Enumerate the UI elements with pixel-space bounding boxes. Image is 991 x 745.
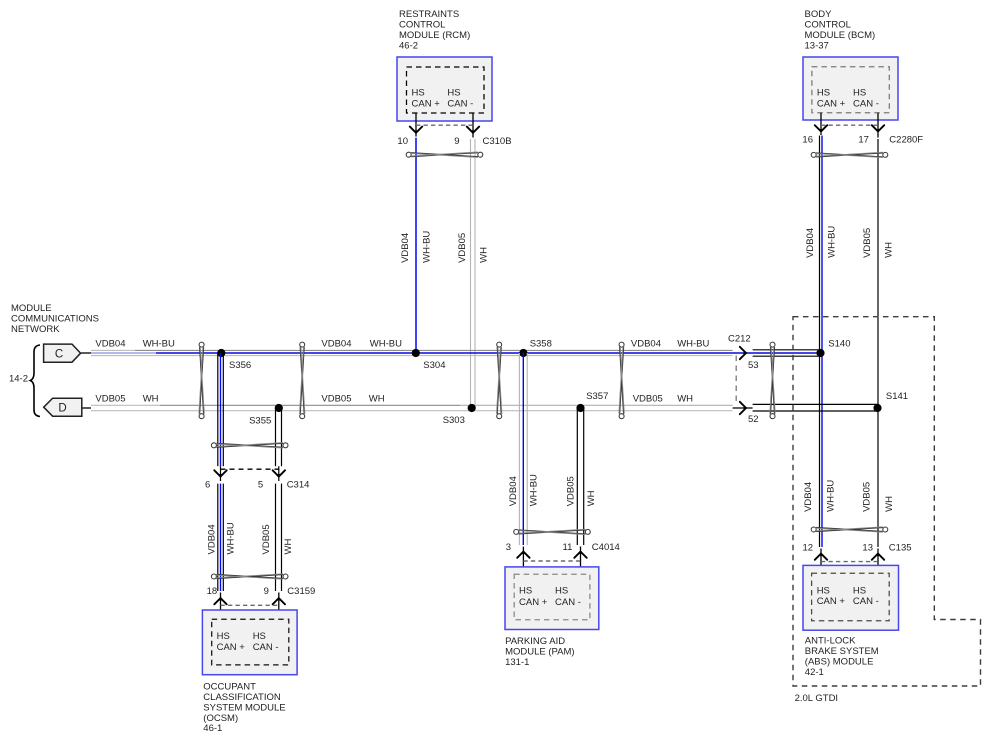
svg-text:VDB05: VDB05 (261, 524, 272, 554)
svg-text:52: 52 (748, 414, 759, 425)
connector C2280F arrow pin 17 (872, 125, 884, 133)
svg-text:SYSTEM MODULE: SYSTEM MODULE (203, 702, 285, 713)
svg-text:WH-BU: WH-BU (826, 226, 837, 258)
connector C310B pin stubs (416, 113, 473, 138)
svg-text:11: 11 (563, 542, 573, 553)
svg-text:WH: WH (883, 242, 894, 258)
svg-text:13: 13 (862, 543, 873, 554)
svg-text:CAN +: CAN + (817, 596, 846, 607)
connector C212 dashed line (735, 356, 737, 406)
wire PAM VDB05 vertical black pair (577, 408, 583, 545)
svg-text:C212: C212 (728, 334, 751, 345)
svg-text:CAN -: CAN - (447, 99, 473, 110)
label ABS title (805, 636, 879, 678)
connector C310B arrow pin 9 (467, 127, 479, 135)
svg-text:HS: HS (853, 585, 866, 596)
brace (30, 345, 40, 417)
svg-text:WH: WH (586, 490, 597, 506)
connector C314 labels (205, 480, 309, 491)
wire PAM VDB04 vertical gray pair with blue (519, 353, 527, 545)
twisted pair symbol bus T2 (300, 342, 305, 419)
label OCSM title (203, 682, 285, 735)
svg-text:10: 10 (397, 136, 408, 147)
svg-text:WH-BU: WH-BU (825, 480, 836, 512)
svg-text:VDB04: VDB04 (508, 476, 519, 506)
svg-text:VDB05: VDB05 (862, 482, 873, 512)
module OCSM box (202, 610, 297, 675)
splice S355 (249, 404, 283, 427)
svg-text:BODY: BODY (805, 9, 833, 20)
wire VDB04 bus black outline right (753, 350, 821, 356)
svg-text:ANTI-LOCK: ANTI-LOCK (805, 636, 856, 647)
svg-text:2.0L GTDI: 2.0L GTDI (795, 693, 838, 704)
svg-text:46-2: 46-2 (399, 40, 418, 51)
svg-text:46-1: 46-1 (203, 723, 222, 734)
svg-text:VDB04: VDB04 (803, 482, 814, 512)
svg-text:5: 5 (258, 480, 263, 491)
svg-text:CAN -: CAN - (853, 596, 879, 607)
svg-text:CAN +: CAN + (519, 597, 548, 608)
svg-text:HS: HS (412, 87, 425, 98)
wire VDB04 bus gray outline (91, 350, 733, 355)
label RCM title (399, 9, 470, 51)
svg-text:14-2: 14-2 (9, 373, 28, 384)
svg-text:C4014: C4014 (592, 542, 620, 553)
svg-text:HS: HS (217, 631, 230, 642)
svg-text:CAN -: CAN - (555, 597, 581, 608)
module PAM box (505, 567, 599, 630)
connector C310B dashed line (416, 124, 473, 126)
svg-text:VDB04: VDB04 (206, 524, 217, 554)
svg-text:HS: HS (519, 585, 532, 596)
svg-text:MODULE (RCM): MODULE (RCM) (399, 30, 470, 41)
twisted pair symbol above C3159 (211, 574, 288, 579)
twisted pair symbol bus T5 (770, 342, 775, 419)
svg-text:CAN -: CAN - (853, 99, 879, 110)
wire BCM pin17 vertical black single (877, 139, 879, 547)
svg-text:VDB05: VDB05 (95, 393, 125, 404)
splice S140 (816, 338, 850, 357)
connector C2280F arrow pin 16 (815, 125, 827, 133)
connector C3159 labels (207, 586, 316, 597)
svg-text:WH-BU: WH-BU (370, 338, 402, 349)
wire VDB05 bus black outline right (753, 404, 878, 411)
connector C4014 stems into PAM (523, 547, 580, 575)
svg-text:HS: HS (853, 87, 866, 98)
twisted pair symbol below C2280F (811, 152, 888, 157)
svg-text:HS: HS (447, 87, 460, 98)
svg-text:53: 53 (748, 360, 759, 371)
svg-text:CONTROL: CONTROL (399, 20, 445, 31)
wire OCSM VDB04 vertical pair lower (218, 484, 224, 591)
svg-text:CAN +: CAN + (217, 642, 246, 653)
svg-text:VDB05: VDB05 (633, 393, 663, 404)
wire OCSM VDB05 vertical pair upper (276, 408, 282, 466)
wire OCSM VDB04 vertical pair upper (218, 353, 224, 466)
svg-text:CONTROL: CONTROL (805, 20, 851, 31)
connector C135 labels (803, 543, 912, 554)
svg-text:6: 6 (205, 480, 210, 491)
svg-text:VDB04: VDB04 (400, 233, 411, 263)
svg-text:BRAKE SYSTEM: BRAKE SYSTEM (805, 646, 879, 657)
svg-text:WH-BU: WH-BU (529, 474, 540, 506)
svg-text:S303: S303 (443, 415, 465, 426)
connector C4014 dashed line (523, 560, 580, 562)
svg-text:VDB04: VDB04 (321, 338, 351, 349)
svg-text:RESTRAINTS: RESTRAINTS (399, 9, 459, 20)
svg-text:WH: WH (479, 247, 490, 263)
label BCM title (805, 9, 876, 51)
connector C212 arrow pin 53 (740, 347, 748, 359)
twisted pair symbol above C314 (211, 443, 288, 448)
wire VDB05 stem through C212 (733, 407, 753, 409)
svg-text:S357: S357 (586, 391, 608, 402)
wire VDB04 bus blue center (91, 352, 156, 354)
svg-text:WH-BU: WH-BU (677, 338, 709, 349)
connector C3159 stems into OCSM (221, 593, 279, 620)
splice S304 (412, 349, 446, 371)
wire VDB05 bus gray outline (91, 405, 733, 410)
connector C4014 arrow pin 3 (517, 550, 529, 558)
wire RCM pin10 VDB04 vertical blue (415, 138, 417, 353)
svg-text:OCCUPANT: OCCUPANT (203, 682, 256, 693)
twisted pair symbol above C135 (811, 527, 888, 532)
svg-text:17: 17 (858, 134, 869, 145)
splice S141 (873, 391, 908, 412)
svg-text:131-1: 131-1 (505, 657, 529, 668)
twisted pair symbol above C4014 (514, 529, 591, 534)
svg-text:18: 18 (207, 586, 218, 597)
connector C310B arrow pin 10 (410, 127, 422, 135)
connector C314 arrow pin 6 (214, 470, 226, 478)
connector C4014 arrow pin 11 (574, 550, 586, 558)
svg-text:13-37: 13-37 (805, 40, 829, 51)
wire OCSM VDB05 vertical pair lower (276, 484, 282, 591)
svg-text:C310B: C310B (483, 136, 512, 147)
dashed box 2.0L GTDI (793, 317, 981, 686)
svg-text:C135: C135 (889, 543, 912, 554)
connector C4014 labels (506, 542, 620, 553)
svg-text:VDB05: VDB05 (457, 233, 468, 263)
svg-text:C3159: C3159 (287, 586, 315, 597)
svg-text:C314: C314 (287, 480, 310, 491)
connector C3159 arrow pin 9 (273, 597, 285, 605)
svg-text:(ABS) MODULE: (ABS) MODULE (805, 657, 874, 668)
svg-text:S355: S355 (249, 416, 271, 427)
connector C314 stem pin6 (220, 466, 222, 481)
connector C314 dashed line (221, 468, 279, 470)
svg-text:MODULE (BCM): MODULE (BCM) (805, 30, 876, 41)
svg-text:HS: HS (555, 585, 568, 596)
svg-text:WH: WH (283, 539, 294, 555)
connector C2280F dashed line (821, 124, 878, 126)
svg-text:MODULE (PAM): MODULE (PAM) (505, 646, 574, 657)
svg-text:S356: S356 (229, 360, 251, 371)
svg-text:C2280F: C2280F (889, 134, 923, 145)
svg-text:42-1: 42-1 (805, 667, 824, 678)
svg-text:9: 9 (264, 586, 269, 597)
connector C135 dashed line (821, 561, 878, 563)
svg-text:WH: WH (677, 393, 693, 404)
svg-text:WH-BU: WH-BU (421, 231, 432, 263)
connector C314 stem pin5 (278, 466, 280, 481)
svg-text:16: 16 (802, 134, 813, 145)
label PAM title (505, 636, 574, 668)
connector D pentagon (44, 398, 91, 416)
module RCM box (397, 57, 492, 121)
svg-text:S141: S141 (886, 391, 908, 402)
svg-text:PARKING AID: PARKING AID (505, 636, 565, 647)
svg-text:VDB04: VDB04 (631, 338, 661, 349)
svg-text:C: C (55, 348, 63, 360)
svg-text:S140: S140 (828, 338, 850, 349)
connector C135 arrow pin 13 (872, 552, 884, 560)
wire RCM pin9 VDB05 vertical white pair (471, 139, 476, 408)
wire BCM pin16 vertical black+blue pair (820, 136, 823, 548)
svg-text:S304: S304 (423, 360, 445, 371)
connector C314 arrow pin 5 (273, 470, 285, 478)
connector C135 stems into ABS (821, 549, 878, 574)
svg-text:MODULE: MODULE (11, 303, 52, 314)
module BCM box (803, 57, 898, 120)
svg-text:NETWORK: NETWORK (11, 324, 60, 335)
svg-text:VDB04: VDB04 (805, 228, 816, 258)
connector C3159 dashed line (221, 604, 279, 606)
connector C3159 arrow pin 18 (214, 597, 226, 605)
twisted pair symbol below C310B (406, 152, 483, 157)
connector C135 arrow pin 12 (815, 552, 827, 560)
twisted pair symbol bus T4 (619, 342, 624, 419)
svg-text:CAN +: CAN + (412, 99, 441, 110)
svg-text:CAN +: CAN + (817, 99, 846, 110)
twisted pair symbol bus T1 (199, 342, 204, 419)
splice S356 (217, 349, 251, 371)
module ABS box (803, 565, 899, 630)
splice S357 (576, 391, 608, 412)
svg-text:WH: WH (884, 496, 895, 512)
svg-text:WH-BU: WH-BU (226, 522, 237, 554)
svg-text:S358: S358 (530, 339, 552, 350)
svg-text:9: 9 (454, 136, 459, 147)
connector C310B labels (397, 136, 511, 147)
connector C212 pin labels (748, 360, 759, 425)
svg-text:VDB05: VDB05 (862, 228, 873, 258)
twisted pair symbol bus T3 (497, 342, 502, 419)
connector C212 arrow pin 52 (740, 402, 748, 414)
connector C2280F pin stubs (821, 113, 878, 138)
svg-text:(OCSM): (OCSM) (203, 713, 238, 724)
svg-text:WH: WH (143, 393, 159, 404)
svg-text:VDB05: VDB05 (566, 476, 577, 506)
connector C2280F labels (802, 134, 923, 145)
splice S303 (443, 404, 476, 426)
svg-text:12: 12 (803, 543, 814, 554)
svg-text:VDB04: VDB04 (95, 338, 125, 349)
svg-text:COMMUNICATIONS: COMMUNICATIONS (11, 314, 99, 325)
svg-text:HS: HS (817, 87, 830, 98)
svg-text:HS: HS (817, 585, 830, 596)
svg-text:VDB05: VDB05 (321, 393, 351, 404)
label module communications network (11, 303, 99, 335)
connector C pentagon (44, 344, 91, 362)
svg-text:CAN -: CAN - (253, 642, 279, 653)
svg-text:WH-BU: WH-BU (143, 338, 175, 349)
svg-text:WH: WH (369, 393, 385, 404)
svg-text:3: 3 (506, 542, 511, 553)
svg-text:HS: HS (253, 631, 266, 642)
svg-text:D: D (58, 402, 66, 414)
svg-text:CLASSIFICATION: CLASSIFICATION (203, 692, 281, 703)
splice S358 (519, 339, 552, 358)
